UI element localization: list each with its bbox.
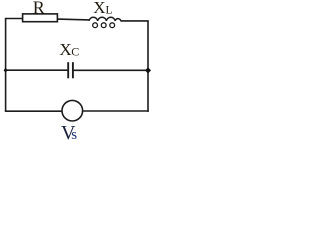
svg-text:X: X bbox=[93, 0, 105, 17]
svg-text:C: C bbox=[71, 45, 79, 59]
svg-text:X: X bbox=[59, 40, 71, 59]
svg-text:s: s bbox=[71, 127, 77, 140]
svg-text:R: R bbox=[33, 0, 45, 18]
svg-text:L: L bbox=[106, 4, 113, 16]
